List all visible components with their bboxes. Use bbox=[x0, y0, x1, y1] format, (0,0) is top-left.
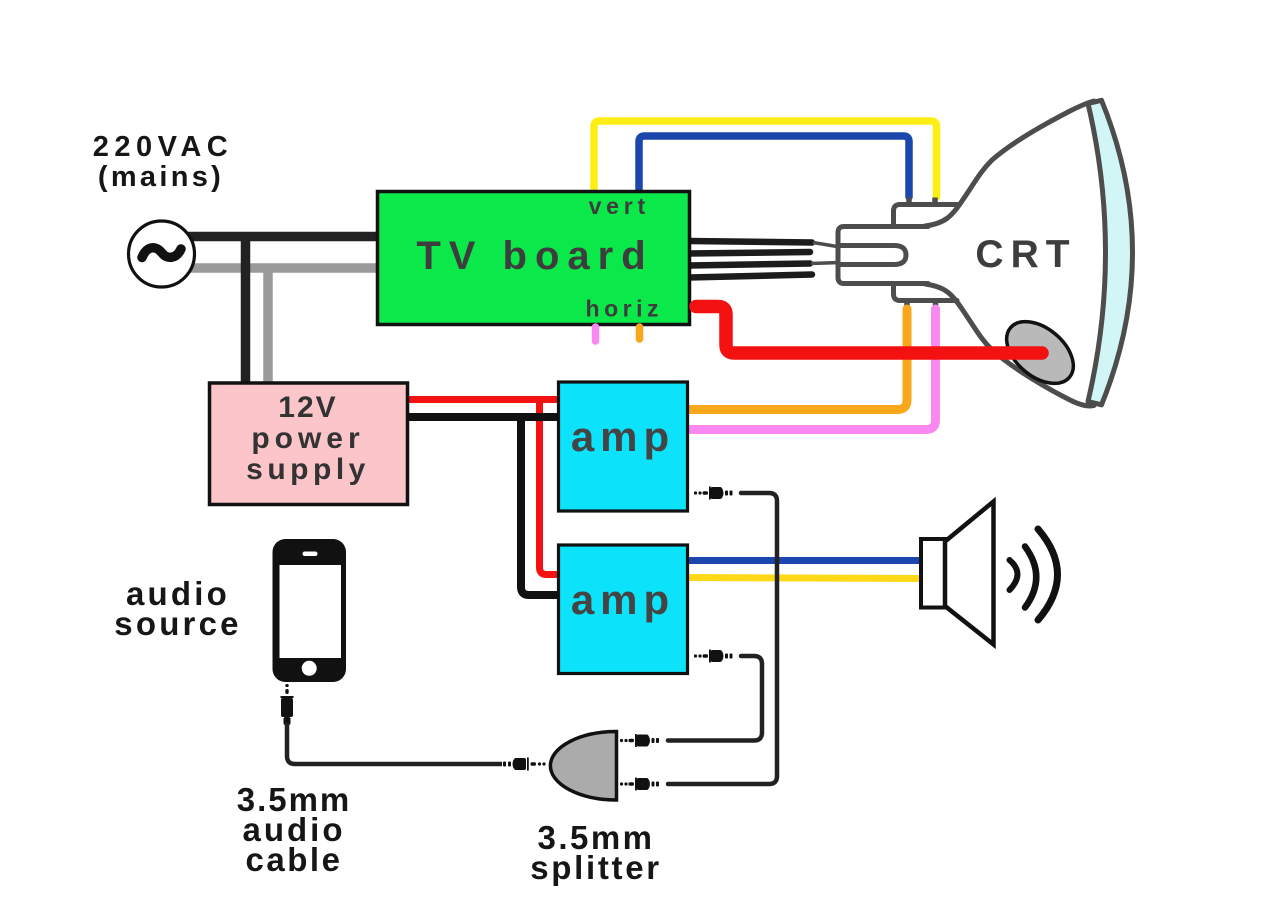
svg-text:source: source bbox=[114, 605, 241, 642]
svg-text:amp: amp bbox=[571, 413, 675, 460]
CRT upper funnel curve bbox=[925, 101, 1094, 226]
wire red power supply to amp1 and amp2 bbox=[409, 396, 559, 403]
label audio source bbox=[114, 575, 241, 642]
wire gray mains branch to power supply bbox=[263, 264, 273, 384]
AC source symbol bbox=[129, 221, 195, 287]
svg-text:amp: amp bbox=[571, 576, 675, 623]
label 3.5mm audio cable bbox=[237, 781, 352, 878]
svg-text:220VAC: 220VAC bbox=[93, 131, 233, 163]
wire red TV board horiz to CRT anode bbox=[696, 307, 1042, 354]
plug 3.5mm splitter output bottom bbox=[620, 778, 659, 791]
CRT neck outline bbox=[838, 227, 928, 284]
svg-text:TV board: TV board bbox=[416, 234, 653, 278]
amp 2 bbox=[559, 545, 688, 674]
wire black amp2 plug to splitter bbox=[668, 656, 762, 741]
wire black CRT signal 2 bbox=[689, 252, 810, 254]
svg-text:vert: vert bbox=[589, 193, 650, 219]
svg-text:splitter: splitter bbox=[530, 849, 662, 886]
svg-text:12V: 12V bbox=[278, 391, 337, 424]
svg-text:power: power bbox=[251, 422, 364, 455]
CRT lower funnel curve bbox=[925, 284, 1094, 406]
CRT yoke stub yellow bbox=[932, 198, 938, 206]
wire yellow amp2 to speaker bbox=[687, 578, 921, 579]
wire blue amp2 to speaker bbox=[687, 557, 921, 564]
CRT yoke stub pink bbox=[933, 301, 939, 310]
wire black CRT signal 3 bbox=[689, 264, 810, 266]
plug 3.5mm at amp1 bbox=[694, 487, 733, 500]
wire black mains to TV board bbox=[182, 232, 378, 242]
connector pins to CRT socket bbox=[811, 243, 840, 264]
wire orange yoke to amp1 bbox=[688, 309, 907, 410]
plug 3.5mm cable to splitter bbox=[503, 758, 546, 771]
label 220VAC (mains) bbox=[93, 131, 233, 193]
CRT upper yoke block bbox=[894, 205, 958, 227]
CRT anode cap bbox=[995, 309, 1085, 395]
12V power supply bbox=[210, 383, 408, 505]
CRT socket key bbox=[838, 246, 906, 265]
svg-text:supply: supply bbox=[246, 453, 370, 486]
stub pink vert under TV board bbox=[592, 327, 600, 341]
plug 3.5mm at phone and audio cable wire bbox=[281, 684, 294, 725]
wire black power supply to amp1 and amp2 bbox=[409, 413, 559, 421]
sound wave arcs bbox=[1010, 529, 1058, 620]
CRT yoke stub blue bbox=[906, 198, 912, 206]
plug 3.5mm at amp2 bbox=[694, 650, 733, 663]
wire black CRT signal 1 bbox=[689, 241, 812, 243]
phone audio source bbox=[273, 539, 347, 682]
3.5mm splitter body bbox=[550, 732, 616, 801]
wire blue TV board to yoke top bbox=[639, 136, 909, 197]
stub orange horiz under TV board bbox=[636, 327, 644, 339]
svg-text:horiz: horiz bbox=[586, 296, 663, 322]
wire pink yoke to amp1 bbox=[688, 309, 936, 430]
svg-text:cable: cable bbox=[246, 841, 343, 878]
TV board bbox=[378, 192, 690, 325]
CRT screen bbox=[1088, 100, 1133, 405]
CRT lower yoke block bbox=[894, 284, 958, 301]
wire yellow TV board to yoke top bbox=[594, 121, 937, 197]
CRT yoke stub orange bbox=[904, 301, 910, 310]
wire black CRT signal 4 bbox=[689, 275, 812, 278]
amp 1 bbox=[559, 382, 688, 511]
speaker bbox=[921, 502, 994, 645]
svg-text:(mains): (mains) bbox=[98, 161, 224, 193]
wire black amp1 plug to splitter bbox=[668, 493, 777, 784]
svg-text:CRT: CRT bbox=[975, 233, 1076, 276]
wire black mains branch to power supply bbox=[241, 232, 251, 383]
label 3.5mm splitter bbox=[530, 819, 662, 886]
plug 3.5mm splitter output top bbox=[620, 734, 659, 747]
wire gray mains to TV board bbox=[185, 263, 378, 273]
